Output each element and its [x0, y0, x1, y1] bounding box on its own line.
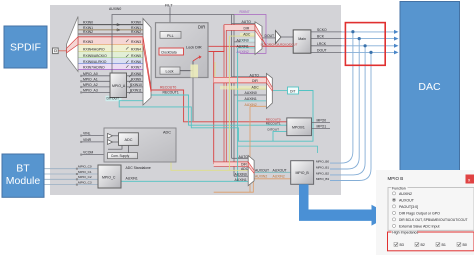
svg-text:VINL: VINL: [83, 131, 91, 135]
red selection rectangle: [345, 23, 385, 66]
svg-text:Lock: Lock: [166, 70, 174, 74]
svg-text:RXIN10: RXIN10: [130, 83, 142, 87]
svg-text:MPIO_C2: MPIO_C2: [78, 175, 92, 179]
svg-text:DITOUT: DITOUT: [268, 127, 280, 131]
svg-text:BT: BT: [16, 163, 30, 175]
radio DIR Flags: [392, 211, 395, 214]
svg-text:MPIO_C3: MPIO_C3: [78, 181, 92, 185]
input fan splitter: [67, 17, 78, 72]
svg-text:MPIO_C: MPIO_C: [102, 175, 116, 179]
svg-text:MPIO_B0: MPIO_B0: [316, 160, 329, 164]
svg-text:AUTO: AUTO: [250, 73, 260, 77]
High Impedance group box (red): [388, 232, 474, 251]
wire AUXIN0 stub to mux B: [234, 94, 266, 96]
svg-text:DIR: DIR: [198, 25, 205, 30]
highlight band DIR into mux A: [224, 25, 255, 31]
radio External Slave: [392, 224, 395, 227]
svg-text:VINR: VINR: [83, 138, 92, 142]
switch DIR/lock (red diagonal): [193, 57, 200, 62]
svg-text:VCOM: VCOM: [83, 150, 93, 154]
wire BT to MPIO_C2: [44, 178, 98, 180]
wire AUXIN1 stub to mux A: [238, 47, 255, 49]
amp triangle 2: [108, 140, 113, 145]
wire DIR clock out (red): [184, 25, 224, 52]
svg-text:RXIN9: RXIN9: [131, 77, 141, 81]
svg-text:SCKO/BCKO/LRCKO/DOUT: SCKO/BCKO/LRCKO/DOUT: [261, 42, 298, 46]
wire RXIN7/AUXIN2 purple top: [234, 15, 266, 54]
wire AUXOUT mux C to MPIO_B: [254, 171, 291, 173]
svg-text:PAOUT[3:0]: PAOUT[3:0]: [399, 205, 418, 209]
svg-text:Lock DIR: Lock DIR: [186, 45, 202, 49]
wire BT to MPIO_C3: [44, 184, 98, 186]
wire LRCK to DAC (blue): [342, 45, 395, 47]
svg-text:RXIN3: RXIN3: [131, 40, 141, 44]
wire MPIO_B1 loop to BCK: [330, 39, 359, 169]
wire DOUT mux A to buffer: [262, 37, 275, 39]
wire BT to MPIO_C0: [44, 168, 98, 170]
svg-text:Function: Function: [392, 186, 406, 190]
row tint AUXIN1 mux A: [240, 45, 255, 49]
arrowheads into DAC: [394, 30, 399, 34]
highlight band RXIN6: [78, 58, 143, 64]
wire mux B to DIT: [272, 90, 287, 92]
wire AUTO stub to mux A: [232, 22, 256, 24]
svg-text:ADC: ADC: [163, 131, 171, 135]
wire MPO1 output: [312, 127, 331, 129]
svg-text:RXIN5: RXIN5: [131, 54, 141, 58]
DAC module box: [400, 2, 460, 171]
wire DIT loop back (cyan): [119, 91, 313, 142]
wire LRCK from Main: [311, 45, 342, 47]
BT module box: [2, 154, 44, 197]
svg-text:MPIO_A1: MPIO_A1: [83, 77, 98, 81]
svg-text:MPIO_B1: MPIO_B1: [316, 165, 329, 169]
svg-text:B2: B2: [421, 243, 425, 247]
svg-text:ADC: ADC: [125, 138, 133, 142]
svg-text:RXIN8: RXIN8: [131, 72, 141, 76]
Function group box: [388, 188, 474, 231]
wire SCKO from Main: [311, 31, 342, 33]
svg-text:RXIN2: RXIN2: [131, 30, 141, 34]
svg-text:AUXIN0: AUXIN0: [235, 173, 247, 177]
svg-text:MPIO_A: MPIO_A: [112, 84, 126, 88]
svg-text:RXIN0: RXIN0: [131, 21, 141, 25]
wire BCK to DAC (blue): [342, 38, 395, 40]
wire RECOUT0 (red): [151, 90, 287, 122]
svg-text:MPIO_A2: MPIO_A2: [83, 83, 98, 87]
wire FILT: [169, 7, 171, 31]
svg-text:AUXIN1: AUXIN1: [126, 176, 138, 180]
wire MPIO_B0 loop to SCKO: [330, 32, 353, 163]
record source mux: [143, 19, 151, 106]
wire AUTO stub to mux B: [232, 76, 267, 78]
Com Supply block: [108, 153, 138, 159]
row tint ADC mux A: [240, 33, 255, 37]
line arrows on RXIN0/RXIN1: [117, 24, 120, 26]
svg-text:RXIN5/ABCKIO: RXIN5/ABCKIO: [83, 54, 107, 58]
svg-text:RXIN3: RXIN3: [83, 40, 93, 44]
svg-text:High Impedance: High Impedance: [392, 231, 418, 235]
svg-text:External Slave ADC Input: External Slave ADC Input: [399, 225, 440, 229]
ADC inner block: [119, 133, 139, 146]
svg-text:RXIN6/ALRKIO: RXIN6/ALRKIO: [83, 60, 107, 64]
svg-text:ADC Standalone: ADC Standalone: [126, 166, 151, 170]
wire ADC yellow to mux C: [138, 138, 248, 171]
wire AUXIN1 stub to mux C: [238, 180, 249, 182]
svg-text:AUXIN0: AUXIN0: [237, 38, 249, 42]
wire RECOUT1 (cyan): [151, 95, 287, 125]
wire MPIO_A3: [82, 91, 111, 93]
svg-text:DOUT: DOUT: [317, 48, 327, 52]
highlight band RXIN7: [78, 64, 143, 70]
MPIO_A block: [110, 73, 127, 98]
svg-text:AUXOUT: AUXOUT: [399, 199, 415, 203]
svg-text:MPO0/1: MPO0/1: [292, 125, 305, 129]
svg-text:MPIO_C1: MPIO_C1: [78, 170, 92, 174]
big blue arrow to dialog: [299, 184, 391, 225]
svg-text:RXIN6: RXIN6: [131, 60, 141, 64]
svg-text:MPIO_A3: MPIO_A3: [83, 89, 98, 93]
wire AUXIN0 stub to mux C: [234, 175, 248, 177]
radio AUXOUT (selected): [392, 198, 395, 201]
svg-text:DOUT: DOUT: [265, 34, 275, 38]
svg-text:RXIN0: RXIN0: [83, 21, 93, 25]
wire BCK from Main: [311, 38, 342, 40]
svg-text:AUTO: AUTO: [242, 20, 252, 24]
svg-text:DIR BCLK OUT, SPB/AME/IOUT/UOU: DIR BCLK OUT, SPB/AME/IOUT/UOUT/COUT: [399, 218, 468, 222]
highlighted path through record mux: [143, 37, 151, 92]
svg-text:RXIN7/ADINO: RXIN7/ADINO: [83, 66, 105, 70]
svg-text:MPIO_B3: MPIO_B3: [316, 177, 329, 181]
checkbox B3: [394, 243, 398, 247]
svg-text:RXIN7: RXIN7: [131, 66, 141, 70]
svg-text:DIT: DIT: [290, 89, 295, 93]
wire MPIO_A2: [82, 86, 111, 88]
ClockData block: [159, 48, 184, 55]
highlighted path through fan: [67, 37, 78, 53]
svg-text:ADC: ADC: [241, 167, 249, 171]
svg-text:RXIN7: RXIN7: [240, 10, 250, 14]
wire AUXIN0 top bus: [112, 15, 234, 177]
svg-text:AUXOUT: AUXOUT: [273, 168, 287, 172]
svg-text:AUTO: AUTO: [239, 155, 249, 159]
svg-text:ADC: ADC: [243, 33, 251, 37]
svg-text:DIR: DIR: [241, 162, 247, 166]
MPIO_C block: [98, 165, 121, 188]
svg-text:MPO1: MPO1: [317, 125, 327, 129]
highlight band DIR into mux C: [214, 162, 249, 166]
junction dot SCKO: [351, 30, 354, 33]
wire AUTO stub to mux C: [232, 157, 249, 159]
wire DIR red bus down: [213, 52, 215, 165]
connector dots MPIO_A inputs: [76, 75, 82, 186]
svg-text:DITOUT: DITOUT: [107, 97, 120, 101]
highlight band RXIN5: [78, 52, 143, 58]
buffer to Main: [281, 36, 293, 38]
svg-text:AUXIN2: AUXIN2: [255, 175, 267, 179]
DIR block: [156, 23, 209, 78]
wire ADC stub to mux B: [229, 88, 266, 90]
svg-text:FILT: FILT: [165, 3, 173, 7]
wire RXIN2: [78, 33, 143, 35]
yellow highlight near switch: [191, 65, 199, 78]
dialog close button: [466, 175, 474, 184]
svg-text:MPO0: MPO0: [317, 119, 327, 123]
junction arrow DIR clock: [193, 50, 197, 54]
svg-text:BCK: BCK: [317, 35, 325, 39]
svg-text:RXIN4: RXIN4: [131, 48, 141, 52]
schematic panel: [50, 5, 341, 195]
svg-text:AUXIN1: AUXIN1: [245, 97, 257, 101]
wire RXIN0: [78, 24, 143, 26]
svg-text:MPIO_B: MPIO_B: [296, 171, 310, 175]
svg-text:MPIO B: MPIO B: [388, 176, 404, 181]
MPO0/1 block: [287, 118, 312, 136]
SPDIF module box: [4, 26, 47, 68]
wire PLL to ClockData b: [175, 38, 177, 48]
svg-text:PLL: PLL: [167, 34, 174, 38]
highlight band RXIN4: [78, 45, 143, 52]
svg-text:DIR: DIR: [244, 27, 250, 31]
svg-text:AUXOUT: AUXOUT: [255, 168, 269, 172]
svg-text:RXIN2: RXIN2: [83, 30, 93, 34]
bus slash marks: [126, 40, 132, 94]
svg-text:RXIN11: RXIN11: [130, 89, 142, 93]
svg-text:SPDIF: SPDIF: [10, 42, 41, 54]
DIT block: [288, 87, 299, 94]
highlight band DITOUT: [106, 96, 122, 101]
checkbox B0: [457, 243, 461, 247]
svg-text:SCKO: SCKO: [317, 28, 327, 32]
checkbox B2: [415, 243, 419, 247]
wire VINR: [82, 141, 108, 143]
svg-text:AUXIN0: AUXIN0: [245, 91, 257, 95]
wire lock flag down: [192, 71, 194, 121]
wire BT to MPIO_C1: [44, 173, 98, 175]
PLL block: [160, 32, 181, 39]
mux A (main output source): [255, 22, 262, 55]
mux B (DIT source): [266, 73, 272, 108]
radio DIR BCK: [392, 218, 395, 221]
SPDIF connector: [53, 48, 59, 54]
wires MPIO_A box to record mux RXIN8-11: [127, 75, 144, 77]
wire yellow jog near Lock: [215, 62, 229, 79]
svg-text:RXIN4/AGPIO: RXIN4/AGPIO: [83, 48, 105, 52]
Main block: [293, 30, 311, 53]
wire DOUT to DAC (blue): [342, 51, 395, 53]
highlighted DIR path through mux C: [248, 162, 254, 173]
wire AUXIN1 stub to mux B: [238, 100, 267, 102]
svg-text:RECOUT0: RECOUT0: [160, 86, 176, 90]
wire MPO0 output: [312, 122, 331, 124]
svg-text:Module: Module: [6, 175, 41, 187]
svg-text:AUXIN2: AUXIN2: [273, 175, 285, 179]
wire AUXIN2 orange bus: [214, 106, 291, 192]
wire mux A red out merge: [262, 39, 267, 47]
junction dot LRCK: [364, 44, 367, 47]
svg-text:AUXIN1: AUXIN1: [235, 178, 247, 182]
wire MPIO_A1: [82, 80, 111, 82]
svg-text:AUXIN2: AUXIN2: [399, 192, 412, 196]
wire AUXIN0 stub to mux A: [234, 41, 255, 43]
wire MPIO_A0: [82, 75, 111, 77]
wire ADC yellow bus vertical: [228, 36, 230, 170]
svg-text:AUXIN1: AUXIN1: [237, 44, 249, 48]
radio PAOUT: [392, 205, 395, 208]
svg-text:MPIO_C0: MPIO_C0: [78, 165, 92, 169]
svg-text:B1: B1: [442, 243, 446, 247]
wire AUXIN1 (cyan): [121, 48, 238, 181]
amp triangle 1: [108, 133, 113, 138]
wire SCKO to DAC (blue): [342, 31, 395, 33]
junction dot BCK: [358, 37, 361, 40]
wire SPDIF to fan (red): [58, 50, 66, 52]
svg-text:LRCK: LRCK: [317, 42, 327, 46]
svg-text:ClockData: ClockData: [161, 51, 177, 55]
highlighted DIR path through mux A: [255, 25, 262, 41]
wire Lock to switch: [180, 61, 193, 71]
highlight band RXIN3: [78, 37, 143, 45]
wire VCOM: [82, 154, 108, 156]
wire MPIO_B2 loop to LRCK: [330, 46, 365, 175]
svg-text:RECOUT1: RECOUT1: [163, 91, 179, 95]
wire cyan aux segment: [238, 146, 318, 153]
wire AUTO bus: [231, 15, 233, 159]
svg-text:AUXIN0: AUXIN0: [109, 7, 121, 11]
svg-text:RECOUT1: RECOUT1: [266, 122, 281, 126]
svg-text:AUXIN2: AUXIN2: [237, 50, 249, 54]
dialog MPIO B background: [376, 170, 474, 255]
svg-text:ADC: ADC: [252, 85, 260, 89]
svg-text:DIR Flags Output or GPO: DIR Flags Output or GPO: [399, 212, 440, 216]
wire RXIN1: [78, 29, 143, 31]
wire ADC stub to mux A: [229, 35, 255, 37]
wire VINL: [82, 135, 108, 137]
wire PLL to ClockData a: [164, 38, 166, 48]
svg-text:Main: Main: [298, 37, 306, 41]
wire ClockData to Lock: [169, 55, 171, 67]
junction dot DOUT: [369, 51, 372, 54]
wire MPIO_B3 loop to DOUT: [330, 52, 371, 180]
wires amps to ADC: [113, 135, 119, 137]
wire DITOUT branch to MPO0/1: [273, 132, 287, 142]
wire AUXIN2 stub to mux B: [250, 105, 266, 107]
highlight band DIR into mux B: [214, 77, 267, 83]
wire DOUT from Main: [311, 51, 342, 53]
buffer triangle: [275, 31, 281, 44]
wire SCKO/BCKO/LRCKO clock path (red): [197, 46, 293, 52]
row tint AUXIN0 mux A: [240, 39, 255, 43]
svg-text:B3: B3: [400, 243, 404, 247]
mux C (AUXOUT source): [248, 156, 254, 186]
ADC outer block: [104, 128, 176, 162]
MPIO_B block: [291, 161, 314, 185]
radio AUXIN2: [392, 192, 395, 195]
svg-text:Com. Supply: Com. Supply: [111, 154, 130, 158]
svg-text:DIR: DIR: [252, 79, 258, 83]
svg-text:AUXIN2: AUXIN2: [245, 103, 257, 107]
svg-text:DAC: DAC: [418, 81, 441, 93]
checkbox B1: [436, 243, 440, 247]
highlighted DIR path through mux B: [266, 77, 272, 91]
svg-text:B0: B0: [463, 243, 467, 247]
Lock block: [160, 67, 180, 74]
svg-text:MPIO_A0: MPIO_A0: [83, 72, 98, 76]
svg-text:MPIO_B2: MPIO_B2: [316, 171, 329, 175]
